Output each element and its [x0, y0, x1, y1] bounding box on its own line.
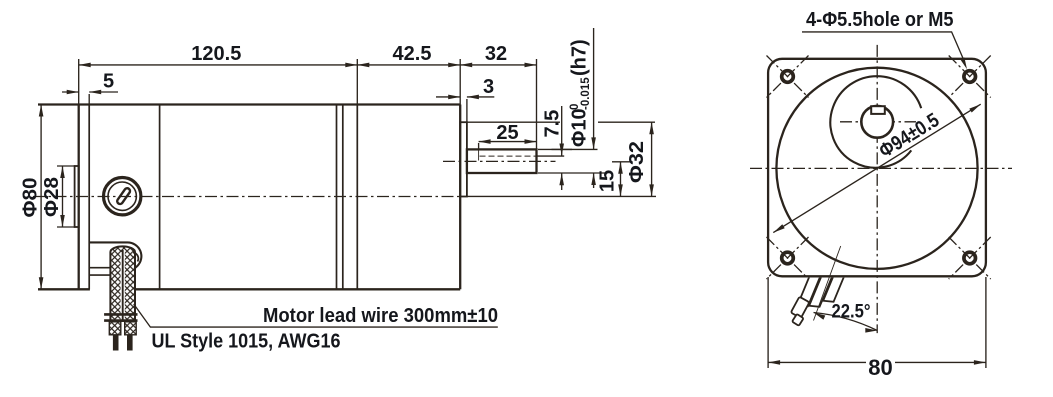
body panel lines: [88, 105, 90, 290]
keyway: [871, 106, 885, 114]
dim 120.5: [79, 64, 358, 66]
body centerline: [33, 196, 462, 198]
svg-text:25: 25: [496, 122, 518, 144]
svg-text:5: 5: [103, 70, 114, 92]
svg-text:Φ10: Φ10: [569, 108, 591, 147]
dim 3: [436, 96, 460, 98]
svg-text:7.5: 7.5: [541, 110, 563, 138]
dim 32: [460, 64, 536, 66]
front shaft circle: [861, 106, 893, 138]
svg-text:Φ28: Φ28: [41, 177, 63, 217]
svg-text:(h7): (h7): [569, 39, 591, 76]
wire tip left: [113, 335, 119, 351]
leader motor lead wire: [134, 304, 498, 327]
svg-text:UL Style 1015, AWG16: UL Style 1015, AWG16: [152, 331, 341, 353]
shaft horizontal centerline: [840, 121, 916, 123]
dim 5: [62, 91, 79, 93]
svg-text:Φ80: Φ80: [20, 178, 42, 218]
main circle dia94: [776, 68, 977, 269]
shaft flat hidden line: [480, 155, 537, 157]
spiral groove: [830, 76, 921, 168]
dim dia10 h7: [593, 28, 595, 149]
motor body outline: [38, 105, 460, 290]
svg-text:4-Φ5.5hole or M5: 4-Φ5.5hole or M5: [806, 9, 954, 31]
dim 25: [479, 141, 537, 143]
gearbox square face: [768, 59, 986, 276]
braided wire right: [125, 322, 137, 335]
dim 22.5 deg arc: [814, 313, 878, 331]
cable housing hook: [90, 242, 141, 268]
flat extension line: [537, 155, 565, 157]
svg-text:-0.015: -0.015: [580, 77, 592, 110]
boss top extension: [467, 121, 560, 123]
dim 42.5: [357, 64, 460, 66]
svg-text:42.5: 42.5: [393, 43, 432, 65]
svg-text:Φ32: Φ32: [626, 141, 648, 183]
braided wire left: [109, 322, 121, 335]
dim dia80: [40, 105, 42, 290]
svg-text:32: 32: [485, 43, 507, 65]
housing step lines: [90, 267, 111, 269]
output shaft dia10: [467, 149, 537, 173]
shaft centerline: [443, 160, 556, 162]
corner hole centerlines: [767, 56, 809, 98]
leader 4-dia5.5: [802, 32, 963, 58]
front boss dia32: [460, 122, 467, 196]
svg-text:3: 3: [483, 76, 494, 98]
wire angle reference line: [814, 246, 841, 321]
dim dia28: [62, 166, 64, 227]
svg-text:15: 15: [596, 170, 618, 192]
svg-text:22.5°: 22.5°: [832, 302, 871, 323]
rear boss dia28: [75, 166, 79, 227]
wire tip right: [127, 335, 133, 351]
dim 15: [620, 162, 622, 197]
corner holes 4x dia5.5: [782, 71, 794, 83]
cable clamp bars: [104, 313, 137, 316]
shaft top/bottom extension lines: [538, 148, 598, 150]
screw head: [104, 178, 141, 215]
sleeve middle split: [121, 252, 125, 321]
dim 80: [767, 277, 769, 368]
boss bottom extension: [467, 195, 656, 197]
svg-text:80: 80: [868, 355, 892, 380]
dim 7.5: [561, 106, 563, 156]
svg-text:120.5: 120.5: [191, 43, 241, 65]
svg-text:Motor lead wire 300mm±10: Motor lead wire 300mm±10: [263, 305, 498, 327]
lead wire braided sleeve: [110, 246, 135, 321]
front vertical centerline: [876, 45, 878, 333]
front horizontal centerline: [750, 167, 1012, 169]
dim dia94 diagonal: [773, 104, 980, 232]
front lead wires: [787, 261, 845, 335]
dim dia32: [651, 122, 653, 196]
